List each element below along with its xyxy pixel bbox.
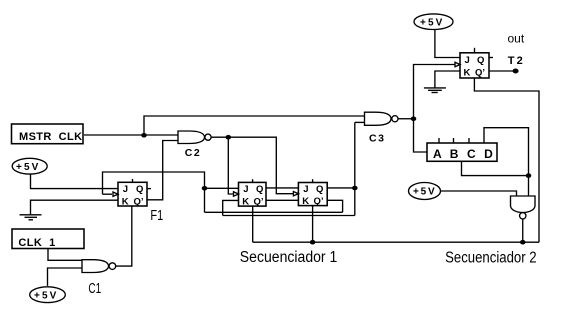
svg-text:K: K: [122, 196, 129, 207]
wire Q1 to J2: [266, 187, 298, 189]
wire MSTR CLK output: [84, 134, 144, 136]
svg-text:MSTR CLK: MSTR CLK: [19, 131, 82, 143]
wire F1 clock stub: [103, 193, 113, 195]
svg-text:J: J: [465, 55, 470, 66]
wire J1 input: [205, 187, 239, 189]
wire Q2 node down to loop B: [354, 188, 356, 216]
svg-text:+5V: +5V: [420, 18, 444, 29]
node J1 junction: [202, 186, 208, 191]
svg-text:Q: Q: [256, 184, 263, 195]
nand S2 (down): [511, 196, 536, 213]
wire Q2 node to C3 lower input: [354, 122, 356, 188]
svg-text:Secuenciador 1: Secuenciador 1: [240, 249, 337, 266]
node T2 terminal: [513, 69, 519, 74]
flip-flop S1 FF1: [239, 182, 267, 206]
wire C3 node up to T2 clock: [414, 65, 455, 119]
ground (T2 K): [435, 71, 460, 88]
wire Q'2 to loop A: [327, 200, 342, 212]
svg-text:J: J: [243, 184, 248, 195]
wire C2 lower input from F1 Q': [147, 141, 178, 200]
power +5V (T2 J): [414, 14, 453, 30]
node C2 output junction: [226, 135, 232, 140]
wire F1 clock / J1 feed horizontal: [103, 172, 205, 194]
wire FF2 bottom pin: [312, 206, 314, 243]
svg-text:Q: Q: [477, 55, 484, 66]
svg-text:out: out: [508, 32, 525, 46]
svg-text:K: K: [464, 68, 471, 79]
wire to C3 upper input: [144, 116, 365, 135]
node C3 output junction: [411, 116, 417, 121]
wire C3 node down to ABCD box: [414, 119, 428, 152]
wire D node to S2 nand input: [528, 176, 530, 196]
svg-text:+5V: +5V: [34, 291, 58, 302]
wire bottom rail: [253, 241, 539, 243]
svg-text:CLK 1: CLK 1: [18, 237, 55, 249]
node bottom rail junction: [310, 240, 316, 245]
wire C2 out to FF1 clock: [228, 137, 238, 194]
wire ABCD bottom out: [462, 161, 529, 175]
wire T2 Q stub: [489, 57, 493, 59]
svg-text:Q’: Q’: [314, 196, 324, 207]
svg-text:C2: C2: [185, 147, 202, 159]
nand C1: [82, 260, 109, 273]
svg-text:Secuenciador 2: Secuenciador 2: [445, 249, 536, 266]
svg-text:A B C D: A B C D: [433, 147, 495, 161]
box CLK 1: [12, 229, 84, 249]
svg-text:Q: Q: [316, 184, 323, 195]
node Q2 junction: [352, 186, 358, 191]
svg-text:K: K: [242, 196, 249, 207]
wire to C2 upper input: [144, 134, 178, 136]
svg-text:T2: T2: [508, 55, 525, 67]
node D junction: [526, 173, 532, 178]
node MSTR junction: [141, 133, 147, 138]
svg-text:Q’: Q’: [134, 196, 144, 207]
wire T2 bottom to right rail: [474, 78, 539, 242]
box ABCD: [427, 143, 497, 161]
wire K1 input: [223, 200, 239, 215]
svg-text:+5V: +5V: [16, 162, 40, 173]
wire C2 output: [211, 136, 228, 138]
power +5V (F1 J): [12, 158, 47, 174]
box MSTR CLK: [12, 124, 84, 144]
wire FF1 bottom pin: [252, 206, 254, 242]
wire J1 node down to loop A: [204, 188, 206, 212]
pin ticks ABCD: [438, 138, 440, 143]
nand C2: [178, 131, 205, 144]
wire T2 Q' output: [489, 70, 516, 72]
wire loop A: [205, 211, 343, 213]
ground (F1 K): [31, 200, 119, 215]
wire C1 output to F1 bottom: [116, 206, 132, 266]
svg-text:Q: Q: [136, 184, 143, 195]
node S2 output junction: [520, 240, 526, 245]
svg-text:K: K: [302, 196, 309, 207]
nand C3: [365, 112, 392, 125]
power +5V (S2 nand): [409, 183, 441, 200]
wire C3 output: [398, 118, 413, 120]
svg-text:Q’: Q’: [254, 196, 264, 207]
svg-text:C1: C1: [88, 281, 101, 297]
wire +5V to S2 nand input: [441, 191, 517, 196]
svg-text:Q’: Q’: [475, 68, 485, 79]
wire F1 Q stub: [147, 188, 151, 190]
svg-text:+5V: +5V: [413, 187, 436, 198]
wire S2 nand output: [522, 219, 524, 242]
svg-text:J: J: [303, 184, 308, 195]
wire CLK1 to C1: [48, 249, 82, 261]
flip-flop S1 FF2: [298, 183, 327, 206]
svg-text:J: J: [123, 184, 128, 195]
svg-text:F1: F1: [150, 208, 163, 224]
flip-flop F1: [118, 182, 147, 206]
flip-flop T2: [460, 53, 489, 78]
svg-text:C3: C3: [369, 132, 386, 144]
wire Q2 out: [327, 187, 355, 189]
wire Q'1 to K2: [266, 199, 298, 201]
wire D loop: [484, 128, 529, 176]
wire C2 out to FF2 clock: [228, 137, 293, 194]
power +5V (C1 input): [30, 287, 66, 303]
wire loop B: [223, 215, 355, 217]
